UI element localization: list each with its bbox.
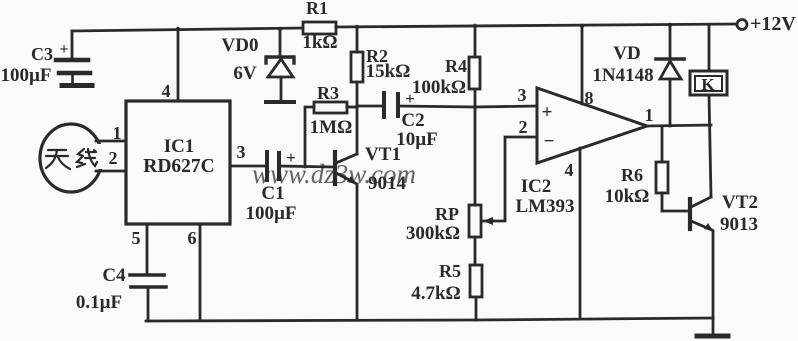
- svg-text:IC2: IC2: [521, 176, 552, 197]
- label 9014: [368, 173, 407, 194]
- svg-text:C3: C3: [31, 44, 53, 64]
- transistor VT2: [690, 197, 713, 318]
- label pin 3 (IC2): [518, 85, 527, 105]
- svg-text:K: K: [701, 75, 715, 94]
- label pin 5 (IC1): [132, 228, 141, 248]
- resistor R6: [656, 126, 668, 211]
- svg-text:100µF: 100µF: [0, 65, 51, 86]
- svg-text:10µF: 10µF: [396, 129, 438, 150]
- transistor VT1: [335, 107, 357, 320]
- label K: [701, 75, 715, 94]
- label VT1: [365, 144, 401, 165]
- label 100kOhm (R4): [412, 77, 466, 98]
- svg-text:4.7kΩ: 4.7kΩ: [411, 283, 461, 304]
- label 6V: [233, 63, 257, 84]
- label IC1: [164, 136, 195, 157]
- svg-text:+12V: +12V: [750, 13, 796, 35]
- zener diode VD0: [266, 29, 294, 102]
- resistor R3: [314, 102, 347, 113]
- svg-text:−: −: [544, 131, 555, 152]
- capacitor C4: [130, 275, 166, 287]
- relay K: [690, 25, 727, 197]
- antenna stub opening: [97, 144, 126, 169]
- capacitor C3: [56, 60, 92, 86]
- svg-text:www.dz3w.com: www.dz3w.com: [252, 159, 416, 189]
- label 300kOhm (RP): [406, 223, 460, 244]
- junction at VD/top rail: [668, 23, 672, 27]
- svg-text:100kΩ: 100kΩ: [412, 77, 466, 98]
- svg-text:100µF: 100µF: [245, 203, 296, 224]
- label 天线 (antenna): [46, 149, 97, 169]
- potentiometer RP: [469, 108, 493, 265]
- svg-text:10kΩ: 10kΩ: [605, 186, 650, 207]
- label RP: [435, 204, 459, 224]
- label pin 4 (IC1): [162, 81, 171, 101]
- wire: IC2 pin4 to ground rail: [579, 148, 582, 318]
- wire: R6 to VT2 base: [662, 210, 688, 213]
- wire: antenna pin1: [96, 140, 126, 143]
- op-amp IC2 LM393: [537, 88, 647, 163]
- wire: C4 to ground rail: [147, 287, 150, 321]
- svg-text:8: 8: [585, 88, 594, 108]
- terminal +12V: [737, 20, 747, 30]
- svg-text:300kΩ: 300kΩ: [406, 223, 460, 244]
- svg-text:1N4148: 1N4148: [592, 65, 653, 86]
- wire: IC2 pin8 to top rail: [581, 26, 584, 104]
- label 15kOhm (R2): [366, 61, 411, 82]
- label C3 plus: [59, 41, 68, 58]
- diode VD 1N4148: [656, 25, 684, 126]
- svg-text:C4: C4: [102, 265, 126, 286]
- label R5: [439, 261, 461, 281]
- svg-text:0.1µF: 0.1µF: [76, 292, 122, 313]
- resistor R1: [303, 22, 336, 34]
- label 100uF (C1): [245, 203, 296, 224]
- label +12V: [750, 13, 796, 35]
- svg-text:RP: RP: [435, 204, 459, 224]
- label RD627C: [143, 156, 215, 177]
- svg-text:1kΩ: 1kΩ: [302, 32, 337, 53]
- label 0.1uF (C4): [76, 292, 122, 313]
- label C1 plus: [286, 148, 296, 167]
- label C3: [31, 44, 53, 64]
- svg-text:6V: 6V: [233, 63, 257, 84]
- label R6: [621, 165, 643, 185]
- wire: IC1 pin3 to C1: [230, 165, 265, 168]
- label pin 6 (IC1): [188, 228, 197, 248]
- svg-text:R5: R5: [439, 261, 461, 281]
- label IC2: [521, 176, 552, 197]
- junction at R4/top rail: [473, 24, 477, 28]
- ground symbol: [697, 318, 728, 336]
- wire: node to IC2 pin3: [475, 106, 537, 107]
- wire: antenna pin2: [96, 170, 126, 173]
- svg-text:1MΩ: 1MΩ: [310, 117, 353, 138]
- label pin 4 (IC2): [565, 160, 574, 180]
- svg-text:2: 2: [109, 148, 118, 168]
- label VT2: [722, 192, 758, 213]
- label 100uF (C3): [0, 65, 51, 86]
- label pin 2 (IC2): [519, 117, 528, 137]
- capacitor C2: [384, 93, 398, 117]
- IC U1: IC1 RD627C box: [126, 101, 230, 224]
- junction at pin8/top rail: [580, 24, 584, 28]
- svg-text:C2: C2: [401, 110, 424, 131]
- label pin 3 (IC1): [237, 142, 246, 162]
- label 1kOhm (R1): [302, 32, 337, 53]
- label 9013: [720, 214, 758, 235]
- label VD0: [222, 35, 259, 56]
- svg-text:15kΩ: 15kΩ: [366, 61, 411, 82]
- wire: C2 to R4 node: [398, 106, 475, 107]
- svg-text:R3: R3: [317, 83, 339, 103]
- wire: +12V top rail: [72, 24, 736, 31]
- label pin 1 (IC1): [113, 123, 122, 143]
- label pin 2 (IC1): [109, 148, 118, 168]
- wire: IC1 pin4 to top rail: [177, 29, 180, 101]
- svg-text:5: 5: [132, 228, 141, 248]
- resistor R4: [469, 26, 480, 108]
- label R4: [445, 56, 467, 76]
- svg-text:VD: VD: [613, 43, 640, 64]
- junction at VD0/top rail: [278, 27, 282, 31]
- label R2: [366, 46, 388, 66]
- svg-text:VT2: VT2: [722, 192, 758, 213]
- label 10kOhm (R6): [605, 186, 650, 207]
- svg-text:RD627C: RD627C: [143, 156, 215, 177]
- label pin 8 (IC2): [585, 88, 594, 108]
- label plus input: [542, 102, 553, 123]
- svg-text:6: 6: [188, 228, 197, 248]
- svg-text:9013: 9013: [720, 214, 758, 235]
- label C1: [261, 183, 284, 204]
- svg-text:R1: R1: [306, 0, 328, 18]
- resistor R5: [470, 265, 482, 320]
- svg-text:4: 4: [162, 81, 171, 101]
- wire: ground bottom rail: [146, 318, 713, 321]
- label LM393: [515, 196, 574, 217]
- label 4.7kOhm (R5): [411, 283, 461, 304]
- svg-text:IC1: IC1: [164, 136, 195, 157]
- label minus input: [544, 131, 555, 152]
- svg-text:LM393: LM393: [515, 196, 574, 217]
- wire: collector node to C2: [357, 105, 382, 108]
- svg-text:1: 1: [645, 105, 654, 125]
- watermark www.dz3w.com: [252, 159, 416, 189]
- svg-text:3: 3: [518, 85, 527, 105]
- wire: RP wiper to IC2 pin2: [483, 137, 537, 221]
- resistor R2: [351, 27, 363, 107]
- label VD: [613, 43, 640, 64]
- label 1N4148: [592, 65, 653, 86]
- svg-text:R6: R6: [621, 165, 643, 185]
- label C2 plus: [405, 89, 415, 108]
- svg-text:4: 4: [565, 160, 574, 180]
- junction at R2/top rail: [355, 25, 359, 29]
- label C4: [102, 265, 126, 286]
- wire: C1 to VT1 base: [279, 166, 333, 167]
- wire: IC1 pin5 lead: [146, 224, 149, 273]
- label pin 1 (IC2): [645, 105, 654, 125]
- wire: R3 right lead to collector node: [347, 106, 357, 109]
- svg-text:2: 2: [519, 117, 528, 137]
- label 1MOhm (R3): [310, 117, 353, 138]
- svg-text:1: 1: [113, 123, 122, 143]
- wire: IC1 pin6 to ground rail: [199, 224, 202, 320]
- antenna circle: [40, 124, 102, 192]
- svg-text:+: +: [542, 102, 553, 123]
- svg-text:3: 3: [237, 142, 246, 162]
- capacitor C1: [267, 152, 279, 180]
- junction at pin4/top rail: [176, 27, 180, 31]
- wire: IC2 output pin1: [647, 125, 711, 126]
- svg-text:R4: R4: [445, 56, 467, 76]
- wire: R3 left bracket to base node: [305, 107, 314, 167]
- label C2: [401, 110, 424, 131]
- label R1: [306, 0, 328, 18]
- label R3: [317, 83, 339, 103]
- label 10uF (C2): [396, 129, 438, 150]
- svg-text:+: +: [59, 41, 68, 58]
- node: top-left corner to C3: [71, 31, 74, 58]
- svg-text:VD0: VD0: [222, 35, 259, 56]
